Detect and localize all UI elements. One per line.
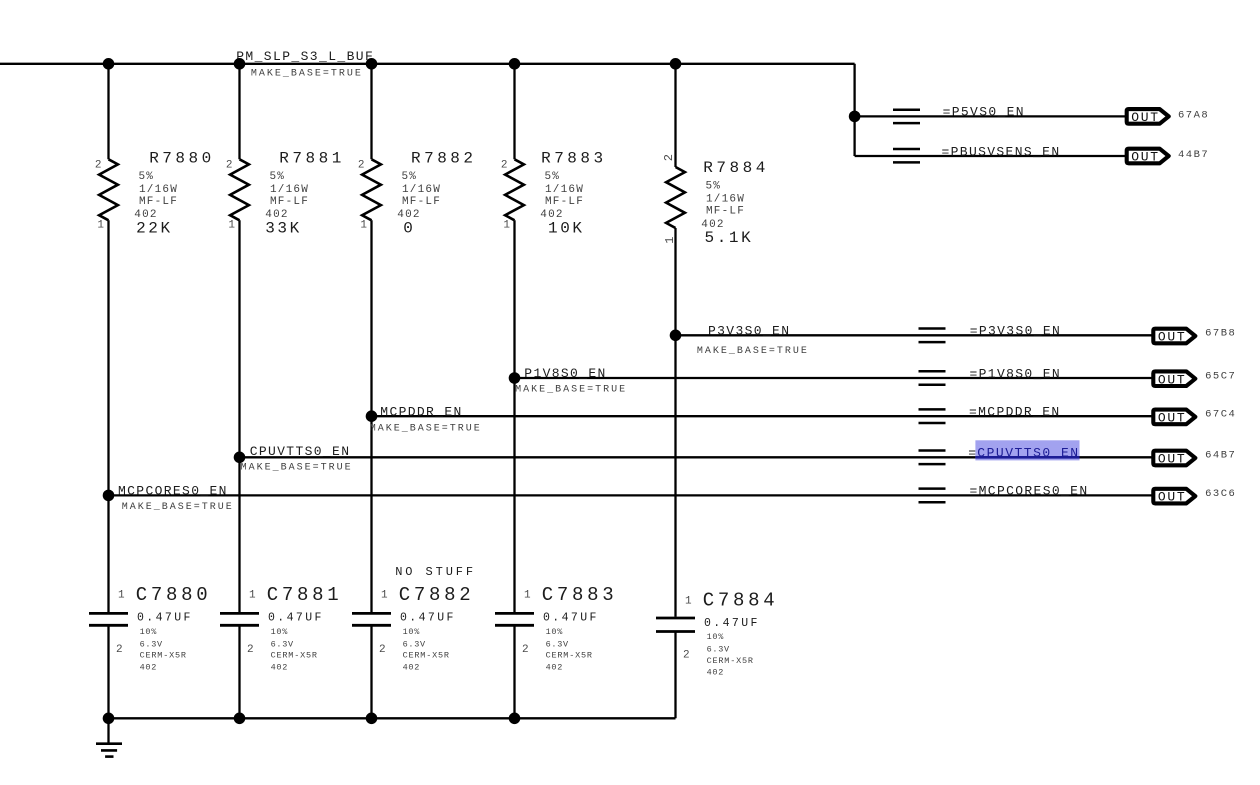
svg-text:MF-LF: MF-LF [545,196,584,208]
svg-text:5%: 5% [402,171,418,183]
capacitor C7884 [656,589,778,718]
svg-text:=P3V3S0_EN: =P3V3S0_EN [970,324,1062,339]
svg-text:2: 2 [522,644,529,656]
svg-text:0.47UF: 0.47UF [400,612,456,625]
svg-text:63C6: 63C6 [1205,488,1236,500]
svg-text:=P1V8S0_EN: =P1V8S0_EN [970,366,1062,381]
junction MCPCORES0_EN tap [103,490,115,502]
svg-text:OUT: OUT [1158,330,1187,345]
svg-text:OUT: OUT [1158,372,1187,387]
svg-text:CPUVTTS0_EN: CPUVTTS0_EN [250,444,351,459]
svg-text:R7884: R7884 [703,159,769,177]
svg-text:6.3V: 6.3V [140,639,163,649]
capacitor C7881 [220,584,342,718]
svg-text:MAKE_BASE=TRUE: MAKE_BASE=TRUE [697,346,809,357]
svg-text:67B8: 67B8 [1205,328,1236,340]
svg-text:R7880: R7880 [149,149,215,167]
port OUT =P3V3S0_EN [1153,329,1195,344]
svg-text:2: 2 [501,160,508,172]
svg-text:OUT: OUT [1158,452,1187,467]
svg-text:1/16W: 1/16W [706,194,745,206]
port OUT =P1V8S0_EN [1153,371,1195,386]
svg-text:1: 1 [503,219,510,231]
ground [96,718,122,756]
wire net MCPCORES0_EN [109,494,1155,496]
wire =PBUSVSENS_EN [853,155,855,156]
svg-text:MF-LF: MF-LF [402,196,441,208]
svg-text:1: 1 [685,596,692,608]
svg-text:OUT: OUT [1131,150,1160,165]
bus tap =CPUVTTS0_EN [919,449,946,452]
svg-text:CERM-X5R: CERM-X5R [546,651,593,661]
svg-text:0.47UF: 0.47UF [137,612,193,625]
svg-text:402: 402 [546,662,563,672]
svg-text:10%: 10% [271,627,289,637]
svg-text:CERM-X5R: CERM-X5R [140,651,187,661]
svg-text:5%: 5% [545,171,561,183]
svg-text:5%: 5% [706,181,722,193]
junction on ground rail [366,713,378,725]
svg-text:10%: 10% [403,627,421,637]
svg-text:C7883: C7883 [542,584,618,606]
svg-text:P3V3S0_EN: P3V3S0_EN [708,324,790,339]
bus tap =MCPCORES0_EN [919,487,946,490]
junction P1V8S0_EN tap [509,372,521,384]
svg-text:10K: 10K [548,220,585,238]
svg-text:33K: 33K [265,220,302,238]
svg-text:2: 2 [226,160,233,172]
junction on top bus [509,58,521,70]
junction on top bus [670,58,682,70]
svg-text:10%: 10% [140,627,158,637]
svg-text:0.47UF: 0.47UF [704,617,760,630]
wire PM_SLP_S3_L_BUF top bus [0,63,855,65]
wire =P5VS0_EN [855,115,1127,117]
svg-text:402: 402 [140,662,157,672]
wire ground rail [109,717,676,719]
junction P5VS0 branch [849,111,861,123]
svg-text:6.3V: 6.3V [707,645,730,655]
svg-text:CERM-X5R: CERM-X5R [707,656,754,666]
capacitor C7883 [495,584,617,718]
svg-text:2: 2 [116,644,123,656]
svg-text:0: 0 [403,220,415,238]
highlight box CPUVTTS0_EN [975,440,1079,460]
svg-text:6.3V: 6.3V [403,639,426,649]
svg-text:1: 1 [249,590,256,602]
svg-text:MCPDDR_EN: MCPDDR_EN [380,404,462,419]
bus tap =MCPDDR_EN [919,408,946,411]
svg-text:C7881: C7881 [267,584,343,606]
svg-text:2: 2 [95,160,102,172]
svg-text:6.3V: 6.3V [271,639,294,649]
wire net MCPDDR_EN [372,415,1155,417]
port OUT =CPUVTTS0_EN [1153,451,1195,466]
junction on ground rail [234,713,246,725]
svg-text:64B7: 64B7 [1205,450,1236,462]
svg-text:2: 2 [662,154,676,161]
svg-text:C7880: C7880 [136,584,212,606]
svg-text:R7882: R7882 [411,149,477,167]
svg-text:6.3V: 6.3V [546,639,569,649]
svg-text:1: 1 [381,590,388,602]
junction CPUVTTS0_EN tap [234,452,246,464]
svg-text:2: 2 [683,650,690,662]
resistor R7881 [226,64,345,612]
port OUT =MCPCORES0_EN [1153,489,1195,504]
bus tap =PBUSVSENS_EN [893,148,920,151]
svg-text:NO STUFF: NO STUFF [395,565,476,579]
svg-text:5%: 5% [270,171,286,183]
svg-text:1/16W: 1/16W [139,184,178,196]
capacitor C7880 [89,584,211,718]
capacitor C7882 [352,584,474,718]
svg-text:1/16W: 1/16W [270,184,309,196]
bus tap =P3V3S0_EN [919,327,946,330]
svg-text:1: 1 [663,237,677,244]
svg-text:OUT: OUT [1131,110,1160,125]
svg-text:1: 1 [524,590,531,602]
svg-text:MAKE_BASE=TRUE: MAKE_BASE=TRUE [370,424,482,435]
wire bus to right column [853,64,855,156]
svg-text:2: 2 [247,644,254,656]
resistor R7884 [662,64,769,617]
svg-text:=: = [968,446,977,461]
svg-text:OUT: OUT [1158,411,1187,426]
svg-text:=MCPCORES0_EN: =MCPCORES0_EN [970,484,1089,499]
svg-text:MF-LF: MF-LF [270,196,309,208]
svg-text:65C7: 65C7 [1205,370,1236,382]
svg-text:2: 2 [358,160,365,172]
svg-text:1/16W: 1/16W [545,184,584,196]
svg-text:402: 402 [271,662,288,672]
svg-text:402: 402 [403,662,420,672]
svg-text:MF-LF: MF-LF [706,206,745,218]
bus tap =P1V8S0_EN [919,370,946,373]
svg-text:MAKE_BASE=TRUE: MAKE_BASE=TRUE [251,68,363,79]
svg-text:67C4: 67C4 [1205,409,1236,421]
svg-text:CPUVTTS0_EN: CPUVTTS0_EN [977,446,1079,461]
svg-text:MCPCORES0_EN: MCPCORES0_EN [118,484,228,499]
junction on top bus [366,58,378,70]
svg-text:10%: 10% [546,627,564,637]
svg-text:PM_SLP_S3_L_BUF: PM_SLP_S3_L_BUF [236,49,374,64]
svg-text:=P5VS0_EN: =P5VS0_EN [943,105,1025,120]
svg-text:OUT: OUT [1158,490,1187,505]
svg-text:P1V8S0_EN: P1V8S0_EN [524,366,606,381]
svg-text:MAKE_BASE=TRUE: MAKE_BASE=TRUE [122,502,234,513]
resistor R7880 [95,64,215,612]
svg-text:MAKE_BASE=TRUE: MAKE_BASE=TRUE [241,463,353,474]
svg-text:1: 1 [97,219,104,231]
resistor R7883 [501,64,607,612]
port OUT =PBUSVSENS_EN [1127,149,1169,164]
svg-text:1: 1 [360,219,367,231]
svg-text:22K: 22K [136,220,173,238]
svg-text:5.1K: 5.1K [705,229,754,247]
svg-text:10%: 10% [707,632,725,642]
wire net P1V8S0_EN [515,377,1155,379]
junction on top bus [103,58,115,70]
svg-text:CERM-X5R: CERM-X5R [403,651,450,661]
junction on ground rail [103,713,115,725]
svg-text:=PBUSVSENS_EN: =PBUSVSENS_EN [942,144,1061,159]
svg-text:C7884: C7884 [703,589,779,611]
svg-text:R7883: R7883 [541,149,607,167]
svg-text:44B7: 44B7 [1178,149,1209,161]
svg-text:MAKE_BASE=TRUE: MAKE_BASE=TRUE [515,385,627,396]
port OUT =MCPDDR_EN [1153,410,1195,425]
svg-text:5%: 5% [139,171,155,183]
svg-text:1: 1 [118,590,125,602]
svg-text:2: 2 [379,644,386,656]
bus tap =P5VS0_EN [893,108,920,111]
svg-text:0.47UF: 0.47UF [268,612,324,625]
wire net CPUVTTS0_EN [240,456,1155,458]
junction on top bus [234,58,246,70]
svg-text:1: 1 [228,219,235,231]
svg-text:1/16W: 1/16W [402,184,441,196]
svg-text:0.47UF: 0.47UF [543,612,599,625]
svg-text:R7881: R7881 [279,149,345,167]
svg-text:CERM-X5R: CERM-X5R [271,651,318,661]
junction MCPDDR_EN tap [366,410,378,422]
svg-text:67A8: 67A8 [1178,110,1209,122]
port OUT =P5VS0_EN [1127,109,1169,124]
svg-text:402: 402 [707,668,724,678]
junction on ground rail [509,713,521,725]
wire net P3V3S0_EN [676,334,1155,336]
svg-text:MF-LF: MF-LF [139,196,178,208]
svg-text:C7882: C7882 [399,584,475,606]
resistor R7882 [358,64,477,612]
svg-text:=MCPDDR_EN: =MCPDDR_EN [969,405,1061,420]
junction P3V3S0_EN tap [670,330,682,342]
